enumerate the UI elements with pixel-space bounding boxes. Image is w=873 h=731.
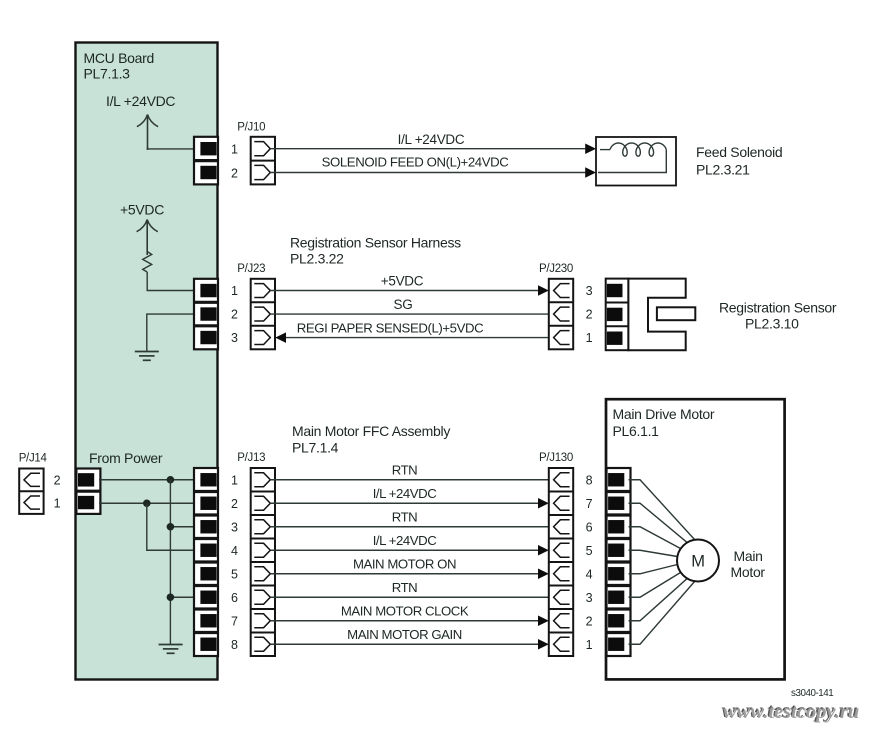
svg-text:SOLENOID FEED ON(L)+24VDC: SOLENOID FEED ON(L)+24VDC [322,155,510,170]
motor lead 2 [629,503,688,543]
svg-text:P/J130: P/J130 [539,452,573,464]
svg-text:1: 1 [231,473,238,487]
main drive motor box PL6.1.1 [606,399,785,679]
MCU board PL7.1.3 [76,43,218,680]
svg-text:s3040-141: s3040-141 [791,688,833,699]
svg-text:4: 4 [586,567,593,581]
wire RTN (pin 1) [270,463,554,480]
svg-text:6: 6 [231,591,238,605]
wire RTN (pin 6) [270,580,554,597]
svg-text:From Power: From Power [89,450,163,466]
svg-text:SG: SG [394,297,413,312]
connector P/J130 receptacle [549,468,573,656]
svg-text:PL6.1.1: PL6.1.1 [613,423,660,439]
net +5VDC (MCU internal) [120,202,164,256]
motor lead 1 [629,480,696,540]
svg-text:PL7.1.3: PL7.1.3 [84,66,131,82]
connector J23 board edge [194,279,218,350]
net I/L +24VDC (MCU internal) [106,93,175,150]
svg-text:RTN: RTN [392,510,418,525]
svg-text:7: 7 [231,614,238,628]
registration sensor label [719,300,837,332]
ground (J23 pin2) [135,352,159,361]
motor lead 3 [629,527,681,549]
RTN bus vertical [169,480,171,645]
svg-text:RTN: RTN [392,580,418,595]
svg-text:RTN: RTN [392,463,418,478]
svg-text:2: 2 [231,497,238,511]
watermark www.testcopy.ru [722,700,861,725]
feed solenoid coil [596,137,676,186]
registration sensor icon: connector block [606,279,629,351]
svg-text:+5VDC: +5VDC [120,202,164,218]
motor lead 8 [629,581,696,644]
wire J23 pin2 to ground [147,314,194,351]
connector P/J14 receptacle [19,469,43,514]
svg-text:PL2.3.10: PL2.3.10 [745,316,799,332]
harness label Main Motor FFC Assembly PL7.1.4 [292,423,450,456]
svg-text:3: 3 [586,591,593,605]
svg-text:2: 2 [586,308,593,322]
motor lead 6 [629,573,681,598]
registration sensor icon: flag slot [657,307,695,320]
harness label PL2.3.22 [290,235,461,267]
svg-text:P/J13: P/J13 [237,452,265,464]
svg-text:REGI PAPER SENSED(L)+5VDC: REGI PAPER SENSED(L)+5VDC [297,320,484,335]
svg-text:2: 2 [231,166,238,180]
junction on RTN wire [167,476,175,484]
arrow into P/J130 pin 2 [538,616,549,627]
wire RTN (pin 3) [270,510,554,527]
svg-text:I/L +24VDC: I/L +24VDC [398,132,465,147]
svg-text:Main: Main [734,548,763,564]
MCU board title [84,50,154,82]
connector P/J10 plug [251,137,275,185]
svg-text:P/J23: P/J23 [237,263,265,275]
svg-text:Registration Sensor: Registration Sensor [719,300,837,316]
wire MAIN MOTOR ON (pin 5) [270,557,538,574]
svg-text:P/J230: P/J230 [539,263,573,275]
connector P/J230 receptacle [549,279,573,350]
svg-text:+5VDC: +5VDC [381,273,424,288]
svg-text:MCU Board: MCU Board [84,50,154,66]
svg-text:PL7.1.4: PL7.1.4 [292,440,339,456]
svg-text:6: 6 [586,520,593,534]
resistor (pull-up) [143,252,152,273]
arrow into P/J230 pin3 [538,285,549,296]
arrow into P/J130 pin 4 [538,569,549,580]
arrow into P/J130 pin 1 [538,639,549,650]
svg-text:MAIN MOTOR ON: MAIN MOTOR ON [353,557,456,572]
svg-text:P/J10: P/J10 [237,122,265,134]
svg-text:PL2.3.21: PL2.3.21 [696,162,750,178]
arrow into P/J130 pin 5 [538,545,549,556]
svg-text:P/J14: P/J14 [19,453,48,465]
connector J13 board edge [194,468,218,656]
svg-text:Motor: Motor [731,564,766,580]
connector P/J23 plug [251,279,275,350]
wire I/L +24VDC (pin 2) [270,486,538,503]
motor lead 5 [629,565,678,574]
ground (RTN bus) [159,645,183,654]
motor M1 circle [677,540,719,582]
connector J10 board edge [194,137,218,185]
main drive motor title [613,406,715,439]
svg-text:M: M [691,553,704,571]
arrow into solenoid pin1 [585,143,596,154]
wire I/L +24VDC (pin 4) [270,533,538,550]
svg-text:3: 3 [586,284,593,298]
connector P/J13 plug [251,468,275,656]
svg-text:MAIN MOTOR GAIN: MAIN MOTOR GAIN [347,627,462,642]
wire resistor to J23 pin1 [147,272,194,291]
+24VDC branch vertical [147,503,194,550]
svg-text:3: 3 [231,331,238,345]
junction pin6 [167,593,175,601]
svg-text:5: 5 [586,544,593,558]
svg-text:1: 1 [231,284,238,298]
svg-text:2: 2 [586,614,593,628]
svg-text:1: 1 [231,143,238,157]
svg-text:I/L +24VDC: I/L +24VDC [373,486,437,501]
junction on +24VDC wire [143,499,151,507]
wire +24VDC from power to J13 pin2 [99,502,194,504]
svg-text:Main Drive Motor: Main Drive Motor [613,406,715,422]
svg-text:PL2.3.22: PL2.3.22 [290,251,344,267]
svg-text:4: 4 [231,544,238,558]
svg-text:MAIN MOTOR CLOCK: MAIN MOTOR CLOCK [341,604,469,619]
arrow into P/J130 pin 7 [538,498,549,509]
wire from +24VDC arrow to J10 pin1 [148,147,195,149]
svg-text:1: 1 [586,331,593,345]
arrow into P/J23 pin3 [275,332,286,343]
svg-text:www.testcopy.ru: www.testcopy.ru [723,701,859,723]
svg-text:I/L +24VDC: I/L +24VDC [106,93,175,109]
wire SOLENOID FEED ON(L)+24VDC [270,155,585,173]
motor lead 4 [629,550,678,556]
wire MAIN MOTOR GAIN (pin 8) [270,627,538,644]
svg-text:2: 2 [231,308,238,322]
svg-text:8: 8 [586,473,593,487]
wire MAIN MOTOR CLOCK (pin 7) [270,604,538,621]
wire REGI PAPER SENSED(L)+5VDC [286,320,554,337]
svg-text:Feed Solenoid: Feed Solenoid [696,144,782,160]
wire RTN from power to J13 pin1 [99,479,194,481]
svg-text:3: 3 [231,520,238,534]
svg-text:Main Motor FFC Assembly: Main Motor FFC Assembly [292,423,450,439]
motor lead 7 [629,578,688,621]
arrow into solenoid pin2 [585,167,596,178]
feed solenoid label [696,144,782,178]
registration sensor icon: photo-interrupter body [628,279,685,351]
stub to J13 pin6 [170,596,194,598]
junction pin3 [167,523,175,531]
svg-text:1: 1 [586,638,593,652]
svg-text:1: 1 [54,496,61,510]
motor connector strip [607,468,631,656]
svg-text:2: 2 [54,474,61,488]
stub to J13 pin3 [170,526,194,528]
wire SG [270,297,554,314]
svg-text:7: 7 [586,497,593,511]
Main Motor label [731,548,766,580]
svg-text:I/L +24VDC: I/L +24VDC [373,533,437,548]
svg-text:5: 5 [231,567,238,581]
wire +5VDC [270,273,538,290]
connector J14 board edge (From Power) [76,469,100,514]
svg-text:Registration Sensor Harness: Registration Sensor Harness [290,235,461,251]
wire I/L +24VDC to solenoid [270,132,585,149]
svg-text:8: 8 [231,638,238,652]
